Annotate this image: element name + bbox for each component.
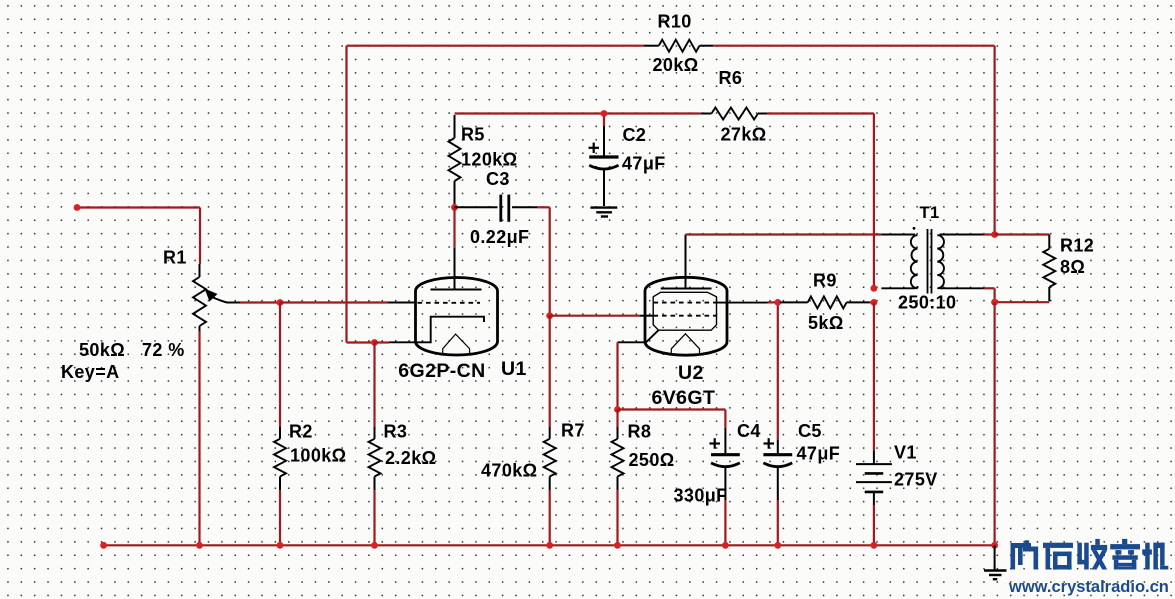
label 470kΩ <box>481 461 537 481</box>
label R12 value <box>1060 257 1085 277</box>
label R7 <box>561 421 585 441</box>
resistor R8 <box>612 410 624 491</box>
svg-text:T1: T1 <box>920 204 940 222</box>
label V1 value <box>894 470 938 490</box>
label R6 <box>719 68 743 88</box>
wire R10 to right rail <box>713 46 995 235</box>
node rail R2 <box>277 542 284 549</box>
svg-text:R7: R7 <box>561 421 585 441</box>
wire U2 plate to T1 <box>686 233 882 235</box>
label 6V6GT <box>652 387 716 409</box>
svg-text:R1: R1 <box>163 248 187 268</box>
label R9 <box>813 271 837 291</box>
svg-text:U1: U1 <box>501 358 527 380</box>
label V1 <box>894 443 917 463</box>
node secondary top / R12 <box>991 231 998 238</box>
label R8 value <box>629 450 675 470</box>
label R3 value <box>385 448 436 468</box>
svg-text:120kΩ: 120kΩ <box>461 150 517 170</box>
wire node to C4 <box>618 410 726 429</box>
capacitor C5 (polarized) <box>763 440 792 500</box>
resistor R7 <box>544 427 556 490</box>
svg-text:C2: C2 <box>623 125 647 145</box>
label R2 <box>289 422 313 442</box>
svg-text:275V: 275V <box>894 470 938 490</box>
wire secondary top to right rail <box>984 233 995 235</box>
svg-text:Key=A: Key=A <box>61 362 120 382</box>
node U2 cathode / R8 / C4 <box>614 406 621 413</box>
wire node to U1 cathode pin <box>375 341 390 343</box>
label C5 value <box>797 444 841 464</box>
node rail R7 <box>546 542 553 549</box>
node rail R8 <box>614 542 621 549</box>
node rail R1 <box>196 542 203 549</box>
label C2 value <box>622 154 666 174</box>
label Key=A <box>61 362 120 382</box>
label C5 <box>798 421 822 441</box>
wire R3 to rail <box>373 490 375 545</box>
watermark logo 矿石收音机 <box>1011 539 1169 570</box>
resistor R2 <box>274 427 286 490</box>
resistor R9 <box>780 296 874 308</box>
svg-text:R5: R5 <box>461 125 485 145</box>
label C2 <box>623 125 647 145</box>
wire R6 to screen rail <box>767 114 874 289</box>
node rail left end <box>100 542 107 549</box>
svg-text:V1: V1 <box>894 443 917 463</box>
label R5 value <box>461 150 517 170</box>
wire top rail <box>347 45 645 47</box>
label R1 value 50kΩ 72 % <box>79 340 185 360</box>
ground bottom right <box>984 545 1007 579</box>
label C5 plus sign <box>764 438 775 449</box>
wire node down to R3 <box>373 343 375 428</box>
svg-text:100kΩ: 100kΩ <box>290 446 346 466</box>
label C2 plus sign <box>589 143 600 153</box>
label C4 <box>737 421 761 441</box>
label R12 <box>1060 236 1094 256</box>
wire feedback from top rail down to U1 cathode <box>347 46 375 343</box>
label R2 value <box>290 446 346 466</box>
ground below C2 <box>590 208 617 217</box>
resistor R6 <box>701 108 767 120</box>
svg-text:6G2P-CN: 6G2P-CN <box>398 360 485 382</box>
wire wiper to node A <box>240 301 280 303</box>
resistor R3 <box>369 427 381 490</box>
node R12 bottom <box>991 299 998 306</box>
node rail right <box>991 542 998 549</box>
potentiometer R1 <box>193 264 240 331</box>
svg-text:250Ω: 250Ω <box>629 450 675 470</box>
wire V1 to rail <box>873 505 875 545</box>
svg-text:R3: R3 <box>384 422 408 442</box>
node A (wiper/R2/grid) <box>277 299 284 306</box>
watermark url <box>1008 578 1169 596</box>
svg-text:R6: R6 <box>719 68 743 88</box>
label C4 plus sign <box>710 438 721 449</box>
svg-text:50kΩ: 50kΩ <box>79 340 125 360</box>
node U1 cathode <box>371 339 378 346</box>
transformer T1 <box>881 227 983 294</box>
wire grid node to U2 <box>546 312 653 319</box>
svg-text:2.2kΩ: 2.2kΩ <box>385 448 436 468</box>
svg-text:72 %: 72 % <box>142 340 185 360</box>
capacitor C2 (polarized) <box>589 114 618 207</box>
wire R7 to rail <box>549 490 551 545</box>
label C4 value 330μF <box>674 486 728 506</box>
wire R1 bottom to ground rail <box>198 331 200 545</box>
wire C5 to rail <box>777 500 779 545</box>
vacuum tube U2 (pentode 6V6GT) <box>618 235 768 356</box>
label 250:10 <box>898 293 956 313</box>
wire node down to V1 <box>873 302 875 450</box>
label U2 <box>678 362 704 384</box>
svg-text:47μF: 47μF <box>622 154 666 174</box>
wire to R12 top <box>995 233 1050 235</box>
wire node A to U1 grid <box>280 301 417 303</box>
node rail C4 <box>722 542 729 549</box>
resistor R10 <box>644 40 713 52</box>
svg-text:27kΩ: 27kΩ <box>721 125 767 145</box>
label R9 value <box>808 313 844 333</box>
svg-text:0.22μF: 0.22μF <box>470 227 529 247</box>
node input terminal <box>74 204 81 211</box>
svg-text:R9: R9 <box>813 271 837 291</box>
svg-text:www.crystalradio.cn: www.crystalradio.cn <box>1008 578 1169 596</box>
resistor R12 <box>1043 235 1055 302</box>
svg-text:250:10: 250:10 <box>898 293 956 313</box>
wire C3 to U2 grid line <box>537 207 549 315</box>
svg-text:C5: C5 <box>798 421 822 441</box>
wire C3 line down to rail (R7 branch) <box>549 316 551 427</box>
svg-text:C4: C4 <box>737 421 761 441</box>
node rail C5 <box>774 542 781 549</box>
label C3 <box>486 169 510 189</box>
label C3 value <box>470 227 529 247</box>
svg-text:470kΩ: 470kΩ <box>481 461 537 481</box>
wire R2 to rail <box>279 490 281 545</box>
wire R8 to rail <box>616 490 618 545</box>
wire right rail down <box>993 302 995 545</box>
resistor R5 <box>449 115 461 206</box>
label R10 <box>658 12 692 32</box>
svg-text:6V6GT: 6V6GT <box>652 387 716 409</box>
wire ground rail <box>104 544 995 546</box>
node screen/R9/C5 <box>774 299 781 306</box>
label R3 <box>384 422 408 442</box>
wire B+ node row (R5/C2/R6) <box>455 112 701 114</box>
label R10 value <box>653 55 699 75</box>
svg-text:R8: R8 <box>628 422 652 442</box>
svg-text:R12: R12 <box>1060 236 1094 256</box>
vacuum tube U1 (triode 6G2P-CN) <box>389 278 498 356</box>
wire input top-left <box>77 208 200 265</box>
wire node A down to R2 <box>279 303 281 428</box>
wire R12 bottom to node <box>995 301 1050 303</box>
node R5 bottom / C3 / U1 plate <box>451 204 458 211</box>
label R5 <box>461 125 485 145</box>
node rail R3 <box>371 542 378 549</box>
wire C4 to rail <box>724 500 726 545</box>
svg-text:C3: C3 <box>486 169 510 189</box>
node C2 top <box>601 110 608 117</box>
svg-text:R2: R2 <box>289 422 313 442</box>
svg-text:47μF: 47μF <box>797 444 841 464</box>
svg-text:8Ω: 8Ω <box>1060 257 1085 277</box>
node R9 right / V1 top <box>871 299 878 306</box>
capacitor C3 <box>455 195 538 222</box>
svg-text:U2: U2 <box>678 362 704 384</box>
label R8 <box>628 422 652 442</box>
svg-text:5kΩ: 5kΩ <box>808 313 844 333</box>
node rail V1 <box>871 542 878 549</box>
svg-text:20kΩ: 20kΩ <box>653 55 699 75</box>
wire U1 plate pin <box>453 207 455 289</box>
label U1 <box>501 358 527 380</box>
label T1 <box>920 204 940 222</box>
label R6 value <box>721 125 767 145</box>
label 6G2P-CN <box>398 360 485 382</box>
svg-text:R10: R10 <box>658 12 692 32</box>
node T1 primary bottom <box>871 285 878 292</box>
svg-text:330μF: 330μF <box>674 486 728 506</box>
wire screen node down to C5 <box>768 302 778 440</box>
label R1 <box>163 248 187 268</box>
wire secondary bottom to node <box>984 288 995 302</box>
wire U2 cathode down <box>616 342 618 409</box>
capacitor C4 (polarized) <box>711 428 740 500</box>
battery V1 <box>856 451 892 505</box>
